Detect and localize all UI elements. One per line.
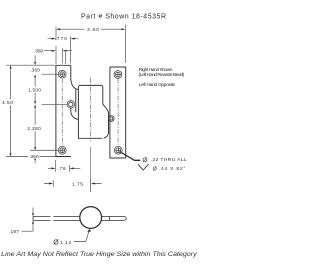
screw hole left bottom bbox=[58, 146, 66, 154]
svg-text:.360: .360 bbox=[34, 48, 43, 54]
extension hex center bbox=[42, 103, 67, 105]
small pin hole right leaf bbox=[108, 116, 114, 122]
leaf wrap vertical edge bbox=[75, 89, 77, 112]
dimension lines bbox=[6, 25, 126, 232]
bar left end cap bbox=[32, 216, 34, 220]
arrow .79 left bbox=[51, 167, 55, 169]
svg-text:Part # Shown 18-4535R: Part # Shown 18-4535R bbox=[81, 14, 166, 21]
dim 1.75 extension left tick bbox=[52, 180, 54, 187]
arrow .197 top bbox=[32, 213, 34, 216]
centerline barrel extension to bottom view bbox=[90, 147, 92, 192]
bottom view knuckle circle bbox=[80, 207, 102, 229]
note dia .22 THRU ALL bbox=[138, 157, 187, 172]
svg-text:1.500: 1.500 bbox=[28, 88, 41, 94]
bar bottom edge bbox=[33, 219, 123, 221]
arrow .770 right bbox=[71, 38, 75, 40]
dim label .360 lower chain bbox=[28, 153, 39, 158]
arrow 1.75 right bbox=[91, 183, 95, 185]
arrow .79 right bbox=[70, 167, 74, 169]
svg-text:.197: .197 bbox=[9, 229, 19, 235]
left leaf to barrel S-curve top bbox=[71, 80, 79, 90]
arrow chain at leaf bottom bbox=[34, 157, 36, 160]
hex hole on left leaf edge bbox=[67, 100, 74, 110]
screw hole right bottom bbox=[114, 146, 122, 154]
leaf lower arc into barrel bbox=[71, 108, 79, 119]
svg-text:4.50: 4.50 bbox=[2, 100, 13, 106]
dim 1.75 extension right bbox=[90, 179, 92, 192]
bar right rounded end bbox=[123, 216, 127, 220]
arrowheads bbox=[10, 28, 126, 232]
arrow chain at bottom hole bbox=[34, 147, 36, 150]
bar tick at right leaf bbox=[109, 216, 111, 220]
svg-text:1.75: 1.75 bbox=[72, 182, 83, 188]
right leaf outline bbox=[110, 67, 126, 158]
arrow .360 top left bbox=[52, 50, 56, 52]
screw hole right top bbox=[114, 71, 122, 79]
dim 3.50 extension right bbox=[125, 25, 127, 63]
leader to countersunk hole bbox=[120, 152, 141, 161]
arrow 1.75 left bbox=[49, 183, 53, 185]
dim 3.50 line bbox=[60, 28, 121, 30]
dim .79 extension left bbox=[55, 160, 57, 172]
dim .360 top lines bbox=[44, 50, 72, 52]
svg-text:Line Art May Not Reflect True: Line Art May Not Reflect True Hinge Size… bbox=[1, 252, 198, 258]
note dia 1.12 bbox=[53, 240, 71, 247]
dim 1.75 lines bbox=[44, 183, 102, 185]
svg-text:.22 THRU ALL: .22 THRU ALL bbox=[151, 157, 187, 163]
left chain dim line segments bbox=[34, 55, 36, 163]
dim .770 arrows lines bbox=[48, 38, 78, 40]
arrow dia 1.12 leader bbox=[87, 229, 91, 232]
svg-text:.360: .360 bbox=[29, 154, 39, 160]
arrow .197 bottom bbox=[32, 220, 34, 223]
arrow chain below hex bbox=[34, 104, 36, 107]
note: Right Hand Shown block bbox=[139, 67, 185, 88]
dim 4.50 line bbox=[10, 68, 12, 153]
leader dia 1.12 bbox=[74, 231, 89, 241]
extension hole top center bbox=[42, 73, 58, 75]
svg-text:.44 X 82°: .44 X 82° bbox=[159, 166, 186, 172]
extension line above leaf at hole edge bbox=[65, 52, 67, 64]
dimension texts bbox=[27, 27, 99, 132]
centerline barrel bbox=[90, 78, 92, 142]
dim .79 extension right bbox=[69, 165, 71, 172]
arrow .770 left bbox=[52, 38, 56, 40]
arrow 4.50 bottom bbox=[10, 153, 12, 156]
svg-text:.360: .360 bbox=[30, 68, 40, 74]
centerline right leaf bbox=[117, 79, 119, 146]
svg-text:1.12: 1.12 bbox=[60, 240, 72, 246]
bottom view bar bbox=[33, 216, 126, 220]
countersink symbol bbox=[138, 164, 149, 170]
arrow chain at leaf top bbox=[34, 62, 36, 65]
extension leaf bottom bbox=[6, 156, 56, 158]
arrow .360 top right bbox=[62, 50, 66, 52]
barrel right bump knuckle bbox=[103, 104, 109, 139]
arrow chain above hex bbox=[34, 101, 36, 104]
svg-text:.79: .79 bbox=[58, 166, 66, 172]
extension leaf top bbox=[6, 64, 56, 66]
svg-text:(Left Hand Reverse Bevel): (Left Hand Reverse Bevel) bbox=[139, 72, 185, 78]
svg-text:3.50: 3.50 bbox=[87, 27, 99, 33]
arrow 4.50 top bbox=[10, 65, 12, 68]
bar top edge bbox=[33, 215, 123, 217]
svg-text:.770: .770 bbox=[55, 36, 68, 42]
extension hole bottom center bbox=[30, 149, 58, 151]
centerline left leaf bbox=[61, 79, 63, 146]
dim .197 vertical lines bbox=[22, 208, 34, 232]
svg-text:Ø: Ø bbox=[53, 240, 59, 247]
dim 3.50 extension left bbox=[55, 27, 57, 64]
barrel rounded rectangle bbox=[78, 85, 102, 138]
arrow 3.50 right bbox=[121, 28, 125, 30]
dim .79 lines bbox=[48, 167, 80, 169]
dim .360 top extension bbox=[61, 48, 63, 63]
dim .770 extension right bbox=[70, 36, 72, 63]
svg-text:Left Hand Opposite: Left Hand Opposite bbox=[139, 82, 176, 88]
left leaf outline bbox=[56, 65, 71, 156]
arrows chain at top hole bbox=[34, 74, 36, 77]
svg-text:2.280: 2.280 bbox=[27, 126, 41, 132]
svg-text:Ø: Ø bbox=[142, 157, 147, 164]
arrow 3.50 left bbox=[56, 28, 60, 30]
screw hole left top bbox=[58, 70, 66, 78]
